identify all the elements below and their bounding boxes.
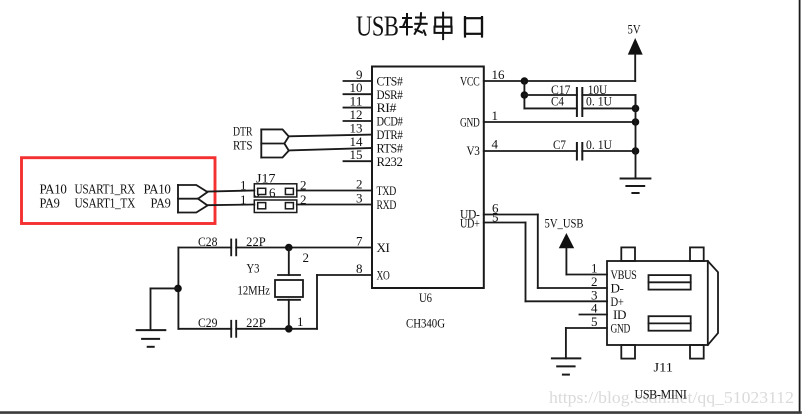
svg-text:RXD: RXD [377,197,397,212]
wire pin4 V3 to C7 [484,150,577,152]
svg-text:J17: J17 [256,170,276,185]
svg-text:GND: GND [460,115,480,130]
capacitor C28 [231,240,236,256]
wire PA10 flag to J17 pin1 top [208,191,255,192]
wire C4 row [524,107,577,109]
svg-text:PA10: PA10 [40,181,68,196]
J17 pin numbers [240,177,307,207]
highlight box (red) [22,158,216,224]
J11 contact slot top [649,275,691,290]
wire DTR to pin 13 [289,135,372,137]
svg-text:2: 2 [303,250,310,265]
U6 left pin name labels [377,74,404,283]
capacitor C17/C4 plates [577,88,582,116]
svg-text:TXD: TXD [377,183,397,198]
power 5V_USB symbol [545,217,584,275]
hand-drawn 口 [465,17,482,36]
wire VCC branch down [523,81,525,108]
svg-text:XI: XI [377,240,390,255]
wire pin6 UD- to J11 D- [484,215,607,289]
svg-text:USART1_RX: USART1_RX [75,181,136,196]
svg-text:0. 1U: 0. 1U [586,95,612,109]
svg-text:XO: XO [377,268,390,283]
harness entry flags DTR/RTS [261,129,289,157]
ground (right, decoupling) [621,179,651,194]
wire RTS to pin 14 [289,148,372,150]
svg-text:DTR: DTR [233,124,253,139]
svg-text:6: 6 [269,186,276,200]
net text PA9 USART1_TX PA9 [40,195,171,210]
junction node XO [285,325,293,333]
svg-text:0. 1U: 0. 1U [586,138,612,152]
svg-text:PA9: PA9 [151,195,171,210]
svg-text:22P: 22P [246,235,266,249]
wire C28 row to pin7 XI [178,247,372,249]
wire C4 row right [582,107,635,109]
svg-text:C7: C7 [553,138,566,152]
wire to left ground [151,288,179,330]
capacitor C29 [231,321,236,337]
capacitor C7 [577,143,582,160]
junction C17 branch [521,91,529,99]
net text PA10 USART1_RX PA10 [40,181,172,196]
svg-text:C28: C28 [198,235,218,249]
hand-drawn 串 [435,13,452,39]
harness entry flags PA10/PA9 [178,185,208,213]
U6 left pin numbers [350,67,364,276]
crystal Y3 [275,248,303,329]
svg-text:4: 4 [492,137,499,152]
wire pin1 GND row [484,121,636,123]
wire pin5 UD+ to J11 D+ [484,223,607,302]
junction VCC branch [521,77,529,85]
wire left vertical between C28 and C29 [177,248,179,329]
svg-text:PA10: PA10 [144,181,172,196]
svg-text:PA9: PA9 [40,195,60,210]
svg-text:R232: R232 [377,154,403,169]
svg-text:5V: 5V [628,22,641,37]
wire stubs pins 9,10,11,12,15 [344,81,373,161]
svg-text:16: 16 [492,67,506,82]
wire VBUS [566,274,607,276]
svg-text:5: 5 [591,314,598,329]
svg-text:1: 1 [240,192,247,207]
svg-text:3: 3 [356,191,363,206]
U6 right pin name labels [460,74,480,231]
svg-text:USB-MINI: USB-MINI [635,387,687,402]
IC U6 CH340G body [372,67,484,289]
svg-text:C4: C4 [551,95,565,109]
wire decoupling vertical to ground [635,95,637,179]
J11 contact slot bottom [649,316,691,331]
U6 right pin numbers [492,67,506,225]
svg-text:C29: C29 [198,316,218,330]
svg-text:J11: J11 [654,360,674,375]
hand-drawn 转 [400,13,426,35]
svg-text:2: 2 [356,177,363,192]
J17 pads [258,188,294,209]
svg-text:1: 1 [492,108,499,123]
svg-text:Y3: Y3 [247,261,260,275]
wire C7 right [582,150,635,152]
wire J17 to U6 pin3 RXD [297,204,372,206]
svg-text:USART1_TX: USART1_TX [75,195,136,210]
junction left ground tap [174,285,182,293]
wire PA9 flag to J17 pin1 bottom [208,204,255,207]
J11 pin name labels [611,267,637,336]
junction node XI [285,244,293,252]
wire C17 row [524,95,635,108]
junction C7 right [632,147,640,155]
svg-text:7: 7 [356,234,363,249]
J11 pin numbers [591,261,598,330]
svg-text:VCC: VCC [460,74,480,89]
svg-text:1: 1 [240,177,247,192]
svg-text:8: 8 [356,261,363,276]
svg-text:RTS: RTS [233,137,253,152]
sheet frame lines [799,0,801,413]
svg-text:CH340G: CH340G [406,316,445,331]
svg-text:1: 1 [297,314,304,329]
stub ID pin [580,314,608,316]
svg-text:U6: U6 [419,290,432,305]
svg-text:UD+: UD+ [460,215,480,230]
ground (USB connector) [552,358,580,374]
connector J17 body [254,184,296,213]
junction C4 right [632,105,640,113]
wire J17 to U6 pin2 TXD [297,190,372,192]
svg-text:5V_USB: 5V_USB [545,217,584,231]
connector J11 USB-MINI body [607,247,718,358]
wire J11 GND [566,328,607,358]
junction GND row [632,118,640,126]
title USB转串口 [356,11,482,43]
wire pin16 VCC to 5V [484,80,635,82]
svg-text:22P: 22P [246,316,266,330]
wire C29 row to XO return [178,275,372,329]
svg-text:12MHz: 12MHz [238,283,271,297]
svg-text:GND: GND [611,321,631,336]
power 5V symbol [628,22,643,82]
ground (left, crystal) [137,330,166,347]
svg-text:V3: V3 [467,143,480,158]
svg-text:USB: USB [356,11,399,43]
